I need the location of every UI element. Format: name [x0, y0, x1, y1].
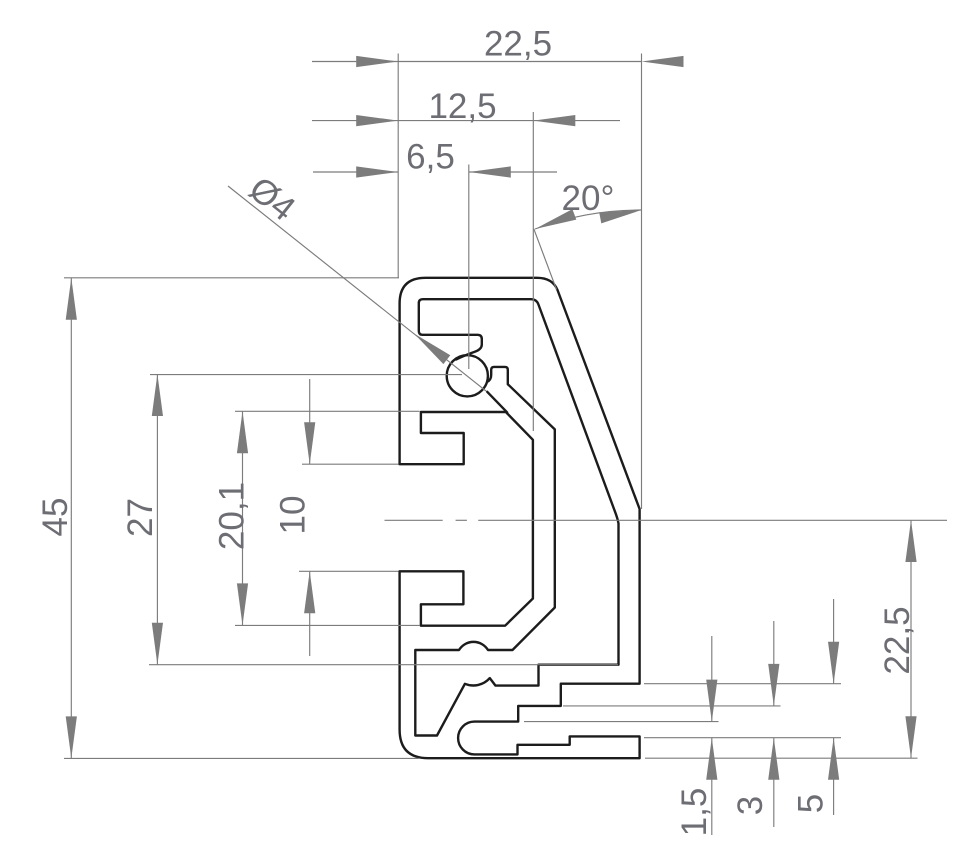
- hole diameter 4 circle: [447, 355, 488, 396]
- arrow 3 top: [768, 664, 779, 706]
- svg-text:10: 10: [274, 496, 313, 535]
- svg-text:27: 27: [121, 498, 160, 537]
- arrow leader Ø4: [414, 334, 450, 365]
- svg-text:1,5: 1,5: [675, 788, 714, 837]
- arrow 22,5R bottom: [905, 716, 916, 758]
- extension line x=641.5: [641, 54, 643, 510]
- extension line x=468.8: [468, 165, 470, 370]
- extension line x=533: [532, 112, 534, 431]
- extension line y=758.2 right: [645, 757, 918, 759]
- arrow 45 top: [66, 278, 77, 320]
- extension line y=571.3: [299, 570, 399, 572]
- extension line y=464.2: [302, 463, 399, 465]
- profile outer boundary: [400, 278, 640, 758]
- arrow 6,5 left: [356, 166, 398, 177]
- dim line 3 upper tail: [773, 621, 775, 706]
- extension line y=737.7 right: [644, 737, 841, 739]
- arrow 22,5 right: [642, 56, 684, 67]
- dim line 22,5 top: [312, 61, 642, 63]
- dim line 1,5 lower tail: [711, 738, 713, 835]
- arrow 27 top: [152, 374, 163, 416]
- svg-text:3: 3: [731, 796, 770, 815]
- arrow 1,5 bottom: [706, 738, 717, 780]
- dim line 12,5: [312, 120, 620, 122]
- arrow 20,1 bottom: [237, 583, 248, 625]
- extension line y=625.4: [235, 624, 420, 626]
- svg-text:20,1: 20,1: [213, 482, 252, 550]
- extension line y=758.4 bottom left: [64, 757, 420, 759]
- svg-text:45: 45: [36, 498, 75, 537]
- dim line 10 lower tail: [309, 571, 311, 656]
- extension line y=721.6 right: [524, 721, 719, 723]
- extension line y=683.7 right: [644, 683, 841, 685]
- extension line y=411.3: [235, 410, 420, 412]
- svg-text:6,5: 6,5: [406, 138, 455, 177]
- arrow 5 bottom: [828, 738, 839, 780]
- arrow 20,1 top: [237, 411, 248, 453]
- dim line 6,5 left part: [313, 171, 398, 173]
- 20deg slant extension: [534, 229, 557, 290]
- dim line 20,1: [242, 411, 244, 625]
- arrow 22,5R top: [905, 520, 916, 562]
- dim line 5 lower tail: [833, 738, 835, 815]
- svg-text:22,5: 22,5: [878, 606, 917, 674]
- arrow 10 bottom: [304, 571, 315, 613]
- extension line y=374: [150, 374, 462, 376]
- extension line y=664.7: [149, 664, 618, 666]
- arrow 6,5 right: [469, 166, 511, 177]
- dim line 22,5 right: [910, 520, 912, 758]
- dim line 45: [70, 278, 72, 759]
- arrow 22,5 left: [356, 56, 398, 67]
- member left slant upper segment to circle: [487, 392, 507, 413]
- leader line Ø4: [228, 186, 486, 391]
- arrow 45 bottom: [66, 716, 77, 758]
- arrow 20deg right: [599, 210, 641, 223]
- dim line 6,5 right part: [469, 171, 557, 173]
- centerline dash-dot: [385, 519, 443, 521]
- arrow 27 bottom: [152, 623, 163, 665]
- arrow 12,5 left: [356, 115, 398, 126]
- svg-text:5: 5: [792, 794, 831, 813]
- dim line 3 lower tail: [773, 738, 775, 827]
- dim line 27: [156, 374, 158, 665]
- arrow 12,5 right: [533, 115, 575, 126]
- arrow 10 top: [304, 422, 315, 464]
- dim line 10 upper tail: [309, 379, 311, 464]
- extension line x=398: [397, 54, 399, 278]
- arrow 5 top: [828, 642, 839, 684]
- arrow 1,5 top: [706, 680, 717, 722]
- arrow 3 bottom: [768, 738, 779, 780]
- dim line 1,5 upper tail: [711, 636, 713, 722]
- 20deg arc: [535, 210, 642, 229]
- dim line 5 upper tail: [833, 599, 835, 684]
- svg-text:22,5: 22,5: [484, 25, 552, 64]
- profile inner cavity boundary: [415, 299, 618, 735]
- extension line y=705.9 right: [563, 705, 781, 707]
- svg-text:12,5: 12,5: [428, 87, 496, 126]
- svg-text:20°: 20°: [562, 179, 615, 218]
- extension line y=277.8: [64, 277, 399, 279]
- arrow 20deg left: [535, 209, 576, 229]
